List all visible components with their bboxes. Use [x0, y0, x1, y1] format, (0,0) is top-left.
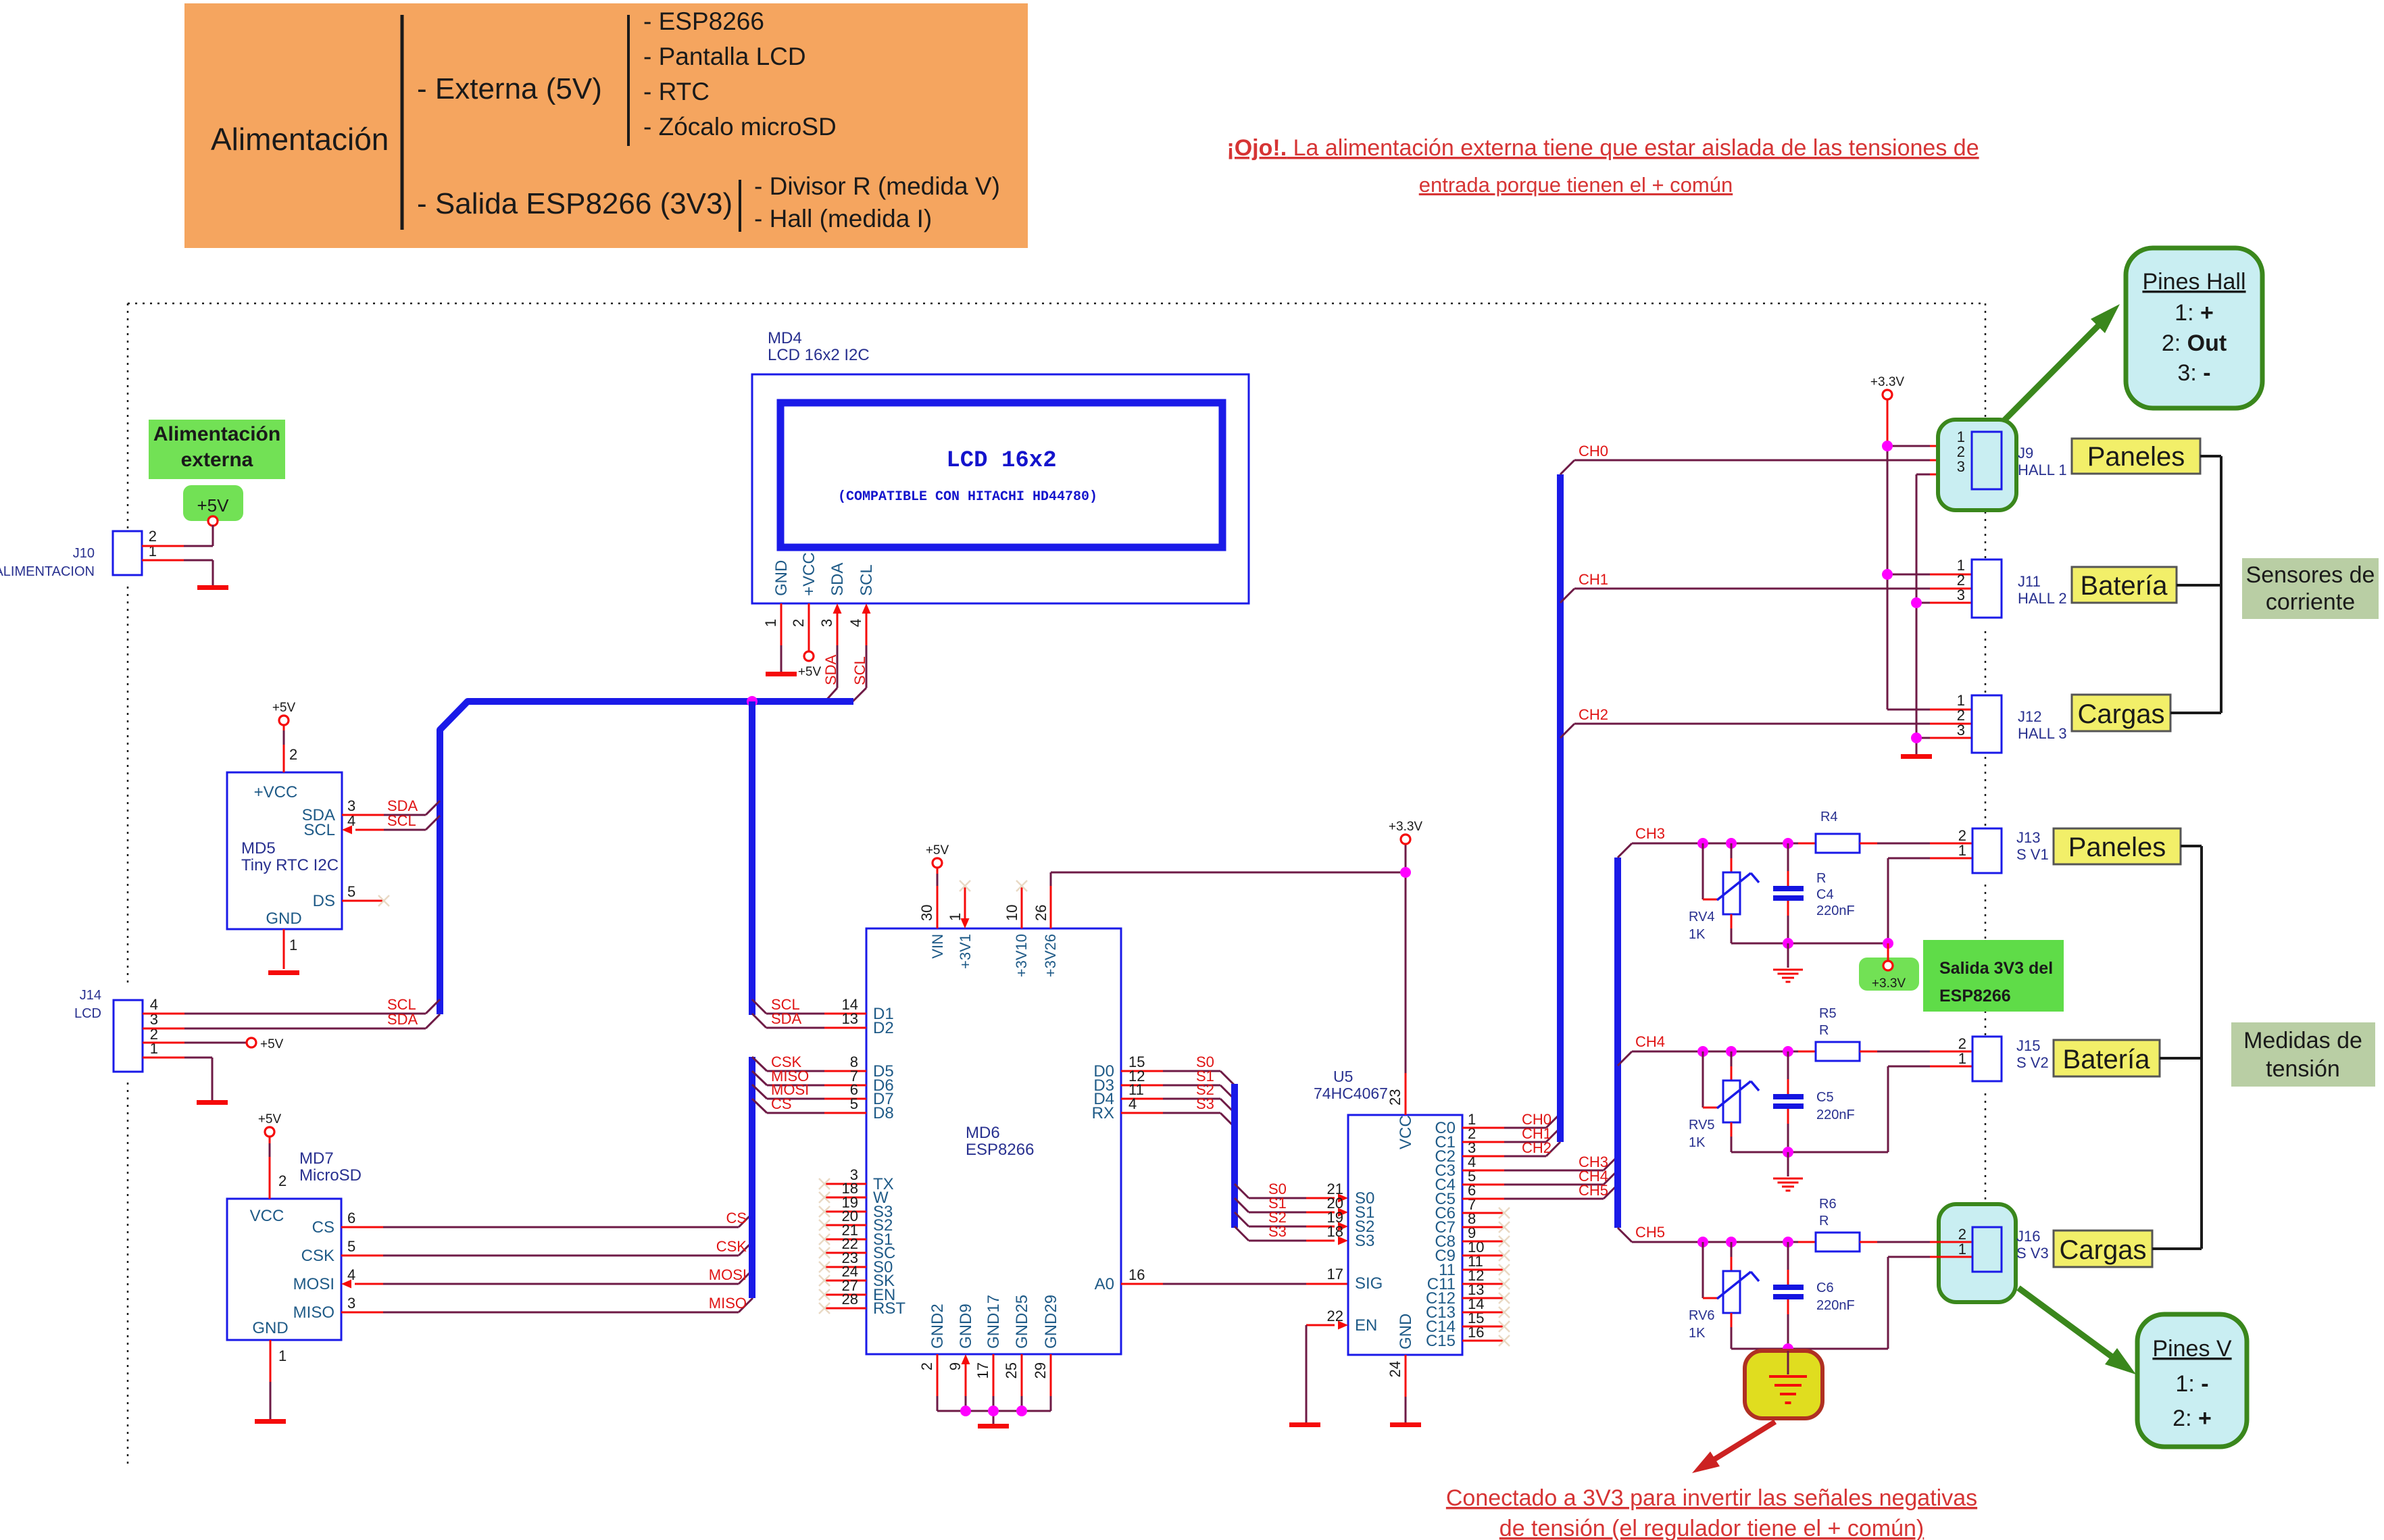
net label CH3 at divider — [1635, 825, 1665, 842]
svg-text:28: 28 — [842, 1291, 858, 1308]
svg-text:R: R — [1816, 871, 1826, 886]
svg-text:1K: 1K — [1689, 927, 1706, 942]
wire RV5 wiper — [1703, 1051, 1718, 1108]
supply +5V terminal MD4 — [798, 651, 822, 679]
svg-text:2: +: 2: + — [2172, 1406, 2212, 1431]
wire MD7 CSK pin5 to bus — [341, 1241, 753, 1256]
MD6 lower-left pin names — [873, 1175, 905, 1318]
module MD6 outline — [866, 928, 1121, 1354]
svg-text:RV6: RV6 — [1689, 1308, 1715, 1323]
net label SCL at MD4 — [851, 656, 868, 685]
svg-text:LCD 16x2 I2C: LCD 16x2 I2C — [768, 346, 870, 364]
junction I2C bus — [747, 696, 758, 707]
wire J10 pin1 to ground — [142, 560, 213, 585]
U5 right pin names — [1426, 1119, 1456, 1350]
svg-text:VCC: VCC — [250, 1207, 284, 1225]
MD4 pin names — [772, 552, 876, 596]
svg-text:CH5: CH5 — [1635, 1224, 1665, 1241]
net labels S0-S3 at MD6 — [1196, 1053, 1214, 1112]
svg-text:1: -: 1: - — [2175, 1371, 2208, 1397]
svg-text:VIN: VIN — [929, 934, 946, 959]
svg-text:J15: J15 — [2016, 1037, 2040, 1054]
svg-text:- Divisor R (medida V): - Divisor R (medida V) — [754, 172, 1000, 200]
potentiometer RV6 — [1717, 1271, 1759, 1313]
svg-text:1K: 1K — [1689, 1135, 1706, 1150]
wire MD6 D4 pin11 S2 — [1121, 1099, 1235, 1113]
wire MD6 +3V10 pin10 — [1021, 886, 1023, 928]
label RV6 — [1689, 1308, 1715, 1341]
svg-text:CH4: CH4 — [1635, 1033, 1665, 1050]
wire MD7 MOSI pin4 to bus — [341, 1270, 753, 1289]
label J13 — [2016, 829, 2049, 863]
svg-text:MD4: MD4 — [768, 329, 802, 347]
svg-text:CH2: CH2 — [1522, 1139, 1551, 1156]
svg-text:22: 22 — [1327, 1308, 1343, 1324]
wire CH5 — [1618, 1228, 1816, 1242]
svg-text:- Pantalla LCD: - Pantalla LCD — [643, 43, 806, 70]
svg-text:entrada porque tienen el + com: entrada porque tienen el + común — [1419, 173, 1733, 197]
legend divider 3 — [739, 180, 741, 232]
callout box Pines Hall — [2126, 248, 2262, 408]
J14 pin numbers — [150, 996, 158, 1057]
svg-text:A0: A0 — [1095, 1275, 1114, 1293]
svg-text:24: 24 — [1387, 1361, 1404, 1377]
svg-text:1: +: 1: + — [2175, 300, 2214, 326]
svg-text:C4: C4 — [1816, 887, 1834, 902]
wire J14 pin3 SDA to bus — [143, 1014, 440, 1028]
label R5 — [1819, 1006, 1837, 1038]
net label SDA at MD4 — [822, 654, 839, 685]
svg-text:Tiny RTC I2C: Tiny RTC I2C — [241, 856, 339, 874]
MD6 unconnected pins TX W S3 S2 S1 SC S0 SK EN RST — [819, 1178, 866, 1314]
label J9 — [2018, 445, 2067, 478]
module MD4 outline — [752, 374, 1249, 603]
wire J9 pin1 +3.3V — [1887, 445, 1972, 447]
svg-text:+5V: +5V — [272, 701, 296, 715]
svg-text:3: 3 — [1957, 458, 1965, 475]
bus I2C branch to MD6 — [749, 701, 755, 1015]
svg-text:1: 1 — [1958, 842, 1966, 859]
no-connect MD6 +3V10 — [1016, 880, 1027, 891]
wire RV4 wiper — [1703, 843, 1718, 899]
svg-text:(COMPATIBLE CON HITACHI HD4478: (COMPATIBLE CON HITACHI HD44780) — [838, 489, 1097, 505]
wire MD6 ground rail — [937, 1411, 1051, 1424]
wire J14 pin2 to +5V — [143, 1042, 247, 1044]
svg-text:ESP8266: ESP8266 — [966, 1141, 1034, 1159]
connector J12 — [1972, 695, 2002, 753]
svg-text:GND29: GND29 — [1042, 1295, 1060, 1349]
svg-text:HALL 1: HALL 1 — [2018, 462, 2067, 478]
wire MD5 +VCC pin2 — [283, 725, 285, 772]
svg-text:+5V: +5V — [260, 1037, 284, 1051]
MD6 lower-left pin numbers — [842, 1166, 858, 1308]
net label CH5 at divider — [1635, 1224, 1665, 1241]
net label MISO at MD6 — [771, 1068, 809, 1085]
frame dotted right — [1985, 303, 1987, 1203]
wire RV5 bottom — [1731, 1122, 1733, 1152]
svg-text:CSK: CSK — [716, 1238, 747, 1255]
svg-text:220nF: 220nF — [1816, 1108, 1855, 1122]
potentiometer RV4 — [1717, 872, 1759, 914]
junction +3.3V at U5 — [1400, 867, 1411, 878]
junction rail +3.3V — [1883, 938, 1893, 949]
resistor R6 — [1816, 1233, 1860, 1251]
svg-text:SDA: SDA — [387, 1011, 418, 1028]
wire MD6 D2 pin13 SDA — [752, 1014, 866, 1028]
wire U5 C1 CH1 — [1462, 1128, 1560, 1142]
legend divider 1 — [401, 15, 404, 230]
svg-text:6: 6 — [347, 1210, 355, 1226]
wire rail2 ground — [1787, 1152, 1789, 1176]
ground C4 divider — [1773, 970, 1803, 982]
net label CSK at MD6 — [771, 1053, 802, 1070]
supply +5V box J10 — [183, 485, 243, 521]
net label SDA at J14 — [387, 1011, 418, 1028]
wire MD6 GND9 pin9 — [962, 1354, 970, 1411]
module MD5 outline — [227, 772, 342, 929]
svg-text:74HC4067: 74HC4067 — [1314, 1085, 1388, 1102]
svg-text:Cargas: Cargas — [2060, 1235, 2147, 1265]
net label CSK at MD7 — [716, 1238, 747, 1255]
callout box J9 — [1938, 420, 2016, 510]
svg-text:16: 16 — [1128, 1266, 1145, 1283]
legend text Alimentacion — [211, 122, 389, 157]
wire MD4 GND pin1 to ground — [780, 603, 783, 672]
svg-text:CS: CS — [312, 1218, 334, 1237]
svg-text:S V2: S V2 — [2016, 1054, 2049, 1071]
J15 pin numbers — [1958, 1035, 1966, 1067]
wire C5 top — [1787, 1051, 1789, 1094]
text Pines Hall — [2142, 269, 2245, 386]
supply +5V terminal J14 — [247, 1037, 284, 1051]
wire MD5 DS pin5 unconnected — [342, 900, 384, 902]
svg-text:GND: GND — [252, 1319, 288, 1337]
svg-text:RX: RX — [1092, 1104, 1114, 1122]
svg-text:25: 25 — [1003, 1362, 1020, 1378]
svg-text:de tensión (el regulador tiene: de tensión (el regulador tiene el + comú… — [1499, 1516, 1924, 1540]
svg-text:SCL: SCL — [387, 812, 416, 829]
svg-text:30: 30 — [918, 905, 935, 921]
wire hall ground rail — [1916, 474, 1918, 754]
label MD5 — [241, 839, 339, 874]
svg-text:GND25: GND25 — [1013, 1295, 1031, 1349]
connector J15 — [1972, 1037, 2002, 1081]
U5 right pin numbers — [1468, 1111, 1484, 1341]
svg-text:ALIMENTACION: ALIMENTACION — [0, 564, 95, 579]
MD6 bottom pin numbers — [918, 1362, 1049, 1378]
ground C5 divider — [1773, 1178, 1803, 1191]
svg-text:1: 1 — [947, 913, 964, 921]
wire U5 GND pin24 — [1405, 1355, 1407, 1422]
svg-text:- Externa (5V): - Externa (5V) — [417, 72, 602, 105]
wire MD6 D6 pin7 MISO — [752, 1071, 866, 1085]
svg-text:1: 1 — [278, 1347, 287, 1364]
wire MD6 A0 pin16 to U5 SIG — [1121, 1283, 1348, 1285]
svg-text:17: 17 — [974, 1362, 991, 1378]
svg-text:4: 4 — [847, 619, 864, 627]
wire C5 bottom — [1787, 1109, 1789, 1152]
resistor R4 — [1816, 834, 1860, 853]
svg-text:+3.3V: +3.3V — [1389, 820, 1423, 834]
wire J11 pin3 — [1916, 602, 1972, 604]
svg-text:17: 17 — [1327, 1266, 1343, 1283]
wire MD6 D1 pin14 SCL — [752, 999, 866, 1014]
label U5 — [1314, 1068, 1388, 1102]
svg-text:GND2: GND2 — [928, 1303, 947, 1349]
supply +5V terminal MD6 — [926, 843, 949, 868]
net label CH0 — [1579, 443, 1608, 459]
wire MD5 SDA pin3 to bus — [342, 801, 440, 815]
svg-text:+VCC: +VCC — [800, 552, 818, 596]
svg-text:CH1: CH1 — [1579, 571, 1608, 588]
wire MD6 +3V1 pin1 — [961, 886, 970, 928]
svg-text:Pines Hall: Pines Hall — [2142, 269, 2245, 295]
wire J12 pin1 +3.3V — [1887, 709, 1972, 711]
net labels CH3-CH5 at U5 — [1579, 1153, 1608, 1199]
net label MOSI at MD7 — [709, 1266, 747, 1283]
svg-text:SCL: SCL — [303, 821, 335, 839]
net label SCL at J14 — [387, 996, 416, 1013]
svg-text:externa: externa — [181, 449, 253, 471]
MD4 pin numbers — [762, 619, 864, 627]
svg-text:220nF: 220nF — [1816, 903, 1855, 918]
svg-text:LCD 16x2: LCD 16x2 — [946, 448, 1056, 474]
connector J10 — [113, 531, 142, 575]
wire S2 to U5 pin19 — [1235, 1212, 1348, 1231]
wire MD6 GND2 pin2 — [937, 1354, 966, 1411]
svg-text:MD7: MD7 — [299, 1149, 334, 1168]
svg-text:5: 5 — [850, 1095, 858, 1112]
svg-text:18: 18 — [1327, 1223, 1343, 1240]
svg-text:J14: J14 — [80, 988, 101, 1003]
wire C6 top — [1787, 1242, 1789, 1285]
svg-text:GND: GND — [772, 560, 791, 596]
svg-text:13: 13 — [842, 1010, 858, 1027]
svg-text:D2: D2 — [873, 1019, 894, 1037]
svg-text:CS: CS — [726, 1210, 747, 1226]
connector J14 — [114, 1000, 143, 1072]
junction CH4 cap top — [1783, 1046, 1793, 1057]
resistor R5 — [1816, 1042, 1860, 1061]
LCD display inner frame — [780, 403, 1222, 547]
MD7 pin numbers — [278, 1172, 355, 1364]
svg-text:RV5: RV5 — [1689, 1118, 1715, 1133]
svg-text:R6: R6 — [1819, 1197, 1837, 1212]
text LCD 16x2 — [946, 448, 1056, 474]
svg-text:2: 2 — [289, 746, 297, 763]
wire MD6 D7 pin6 MOSI — [752, 1085, 866, 1099]
wire MD6 GND17 pin17 — [993, 1354, 995, 1411]
svg-text:Alimentación: Alimentación — [153, 423, 280, 445]
legend text Externa 5V — [417, 72, 602, 105]
legend text Salida ESP8266 3V3 — [417, 187, 732, 220]
label box Paneles V — [2054, 828, 2181, 864]
wire RV6 bottom — [1731, 1313, 1733, 1349]
svg-text:D8: D8 — [873, 1104, 894, 1122]
U5 left pin numbers — [1327, 1181, 1343, 1324]
U5 left pin names — [1355, 1189, 1383, 1335]
junction CH5 pot top — [1726, 1237, 1737, 1247]
ground U5 EN — [1289, 1422, 1320, 1427]
MD6 top pin numbers — [918, 905, 1049, 921]
svg-text:1: 1 — [289, 937, 297, 953]
wire S1 to U5 pin20 — [1235, 1198, 1348, 1217]
text Pines V — [2152, 1336, 2231, 1431]
bus SPI — [749, 1057, 755, 1298]
wire S0 to U5 pin21 — [1235, 1184, 1348, 1203]
wire rail3 ground — [1787, 1349, 1789, 1374]
net label CH1 — [1579, 571, 1608, 588]
ground MD4 — [766, 672, 797, 676]
junction +3.3V J9 — [1882, 441, 1893, 451]
net label MISO at MD7 — [709, 1295, 747, 1312]
label MD7 — [299, 1149, 362, 1185]
junction +3.3V J11 — [1882, 569, 1893, 580]
legend list Pantalla LCD — [643, 43, 806, 70]
svg-text:R: R — [1819, 1023, 1829, 1038]
svg-text:RV4: RV4 — [1689, 910, 1715, 924]
wire +3.3V rail hall — [1887, 399, 1889, 710]
net label SDA at MD6 — [771, 1010, 802, 1027]
junction CH3 pot top — [1726, 838, 1737, 849]
svg-text:Alimentación: Alimentación — [211, 122, 389, 157]
net label SCL at MD6 — [771, 996, 800, 1013]
svg-text:- Salida ESP8266 (3V3): - Salida ESP8266 (3V3) — [417, 187, 732, 220]
svg-text:Sensores de: Sensores de — [2246, 562, 2375, 588]
svg-text:Batería: Batería — [2063, 1045, 2151, 1074]
svg-text:corriente: corriente — [2266, 589, 2355, 615]
MD6 left pin names — [873, 1005, 894, 1122]
wire RV4 bottom — [1731, 914, 1733, 943]
connector J13 — [1972, 828, 2002, 873]
MD6 right pin numbers — [1128, 1053, 1145, 1283]
svg-text:5: 5 — [347, 883, 355, 900]
svg-text:GND: GND — [266, 910, 301, 928]
svg-text:- ESP8266: - ESP8266 — [643, 7, 764, 35]
wire rail1 ground — [1787, 943, 1789, 968]
svg-text:MOSI: MOSI — [709, 1266, 747, 1283]
svg-text:Salida 3V3 del: Salida 3V3 del — [1939, 959, 2053, 978]
wire RV5 top — [1731, 1051, 1733, 1081]
legend list RTC — [643, 78, 710, 105]
MD6 top pin names — [929, 934, 1059, 977]
junction hall ground J11 — [1911, 597, 1922, 608]
wire U5 C5 CH5 — [1462, 1185, 1618, 1199]
label RV4 — [1689, 910, 1715, 942]
svg-text:RST: RST — [873, 1299, 905, 1318]
wire RV6 top — [1731, 1242, 1733, 1271]
svg-text:3: 3 — [1957, 722, 1965, 739]
net label SCL at MD5 — [387, 812, 416, 829]
ground J10 — [197, 585, 228, 590]
svg-text:+3.3V: +3.3V — [1872, 976, 1906, 991]
svg-text:2: 2 — [918, 1362, 935, 1370]
junction CH3 wiper — [1697, 838, 1708, 849]
junction hall ground J12 — [1911, 732, 1922, 743]
junction MD6 GND25 — [1016, 1406, 1027, 1416]
svg-text:+3V26: +3V26 — [1042, 934, 1059, 977]
highlight box ground 3V3 — [1745, 1351, 1822, 1418]
link lines hall sensors — [2170, 456, 2221, 713]
svg-text:J12: J12 — [2018, 708, 2041, 725]
legend divider 2 — [627, 15, 630, 146]
wire J12 pin3 — [1916, 737, 1972, 739]
wire U5 VCC pin23 to +3.3V — [1405, 844, 1407, 1115]
svg-text:Paneles: Paneles — [2068, 833, 2166, 862]
wire U5 C3 CH3 — [1462, 1156, 1618, 1170]
wire MD6 VIN pin30 — [937, 868, 939, 928]
wire J14 pin1 to ground — [143, 1058, 212, 1100]
bus CH0-CH2 — [1557, 474, 1564, 1142]
svg-text:MD5: MD5 — [241, 839, 276, 858]
svg-text:¡Ojo!. La alimentación externa: ¡Ojo!. La alimentación externa tiene que… — [1226, 135, 1979, 161]
svg-text:S3: S3 — [1196, 1095, 1214, 1112]
svg-text:SDA: SDA — [771, 1010, 802, 1027]
label C4 — [1816, 871, 1855, 918]
svg-text:3: -: 3: - — [2177, 360, 2210, 386]
junction rail C4 — [1783, 938, 1793, 949]
svg-text:MOSI: MOSI — [293, 1275, 334, 1293]
supply +3.3V terminal hall — [1870, 375, 1905, 399]
module U5 outline — [1348, 1115, 1462, 1355]
note box Salida 3V3 — [1923, 940, 2064, 1012]
ground J14 — [197, 1100, 228, 1105]
wire J9 pin3 — [1916, 474, 1972, 476]
svg-text:LCD: LCD — [74, 1006, 101, 1021]
svg-text:SCL: SCL — [851, 656, 868, 685]
svg-text:CH3: CH3 — [1635, 825, 1665, 842]
ground C6 divider inverted — [1769, 1351, 1807, 1403]
label box Cargas hall — [2072, 695, 2170, 731]
J13 pin numbers — [1958, 827, 1966, 859]
label J10 — [0, 546, 95, 579]
junction CH3 cap top — [1783, 838, 1793, 849]
wire CH2 — [1560, 724, 1972, 738]
svg-text:U5: U5 — [1333, 1068, 1353, 1085]
wire MD4 +VCC pin2 to +5V — [808, 603, 810, 651]
svg-text:4: 4 — [1128, 1095, 1137, 1112]
wire U5 C0 CH0 — [1462, 1114, 1560, 1128]
svg-text:29: 29 — [1032, 1362, 1049, 1378]
label box Bateria hall — [2072, 567, 2177, 603]
svg-text:2: 2 — [790, 619, 807, 627]
svg-text:C5: C5 — [1816, 1090, 1834, 1105]
bus I2C — [440, 701, 853, 1014]
svg-text:+3V10: +3V10 — [1013, 934, 1030, 977]
callout box Pines V — [2137, 1314, 2247, 1447]
J11 pin numbers — [1957, 557, 1965, 603]
wire R6 to J16 pin2 — [1860, 1241, 1972, 1243]
svg-text:+5V: +5V — [258, 1112, 282, 1126]
wire J16 pin1 — [1888, 1257, 1972, 1349]
svg-text:Conectado a 3V3 para invertir: Conectado a 3V3 para invertir las señale… — [1446, 1485, 1977, 1511]
svg-text:- Zócalo microSD: - Zócalo microSD — [643, 113, 837, 141]
no-connect MD5 DS — [378, 895, 389, 906]
net label CS at MD6 — [771, 1095, 792, 1112]
svg-text:C15: C15 — [1426, 1332, 1456, 1350]
frame dotted top — [128, 303, 1985, 305]
arrow J16 to Pines V — [2018, 1288, 2136, 1374]
svg-text:C6: C6 — [1816, 1281, 1834, 1295]
connector J16 — [1972, 1227, 2002, 1272]
svg-text:tensión: tensión — [2266, 1056, 2340, 1082]
svg-text:+3.3V: +3.3V — [1870, 375, 1905, 389]
svg-text:GND9: GND9 — [957, 1303, 975, 1349]
label J15 — [2016, 1037, 2049, 1071]
wire divider rail CH3 — [1731, 943, 1888, 945]
frame dotted left — [127, 303, 129, 1466]
svg-text:- Hall (medida I): - Hall (medida I) — [754, 205, 932, 232]
